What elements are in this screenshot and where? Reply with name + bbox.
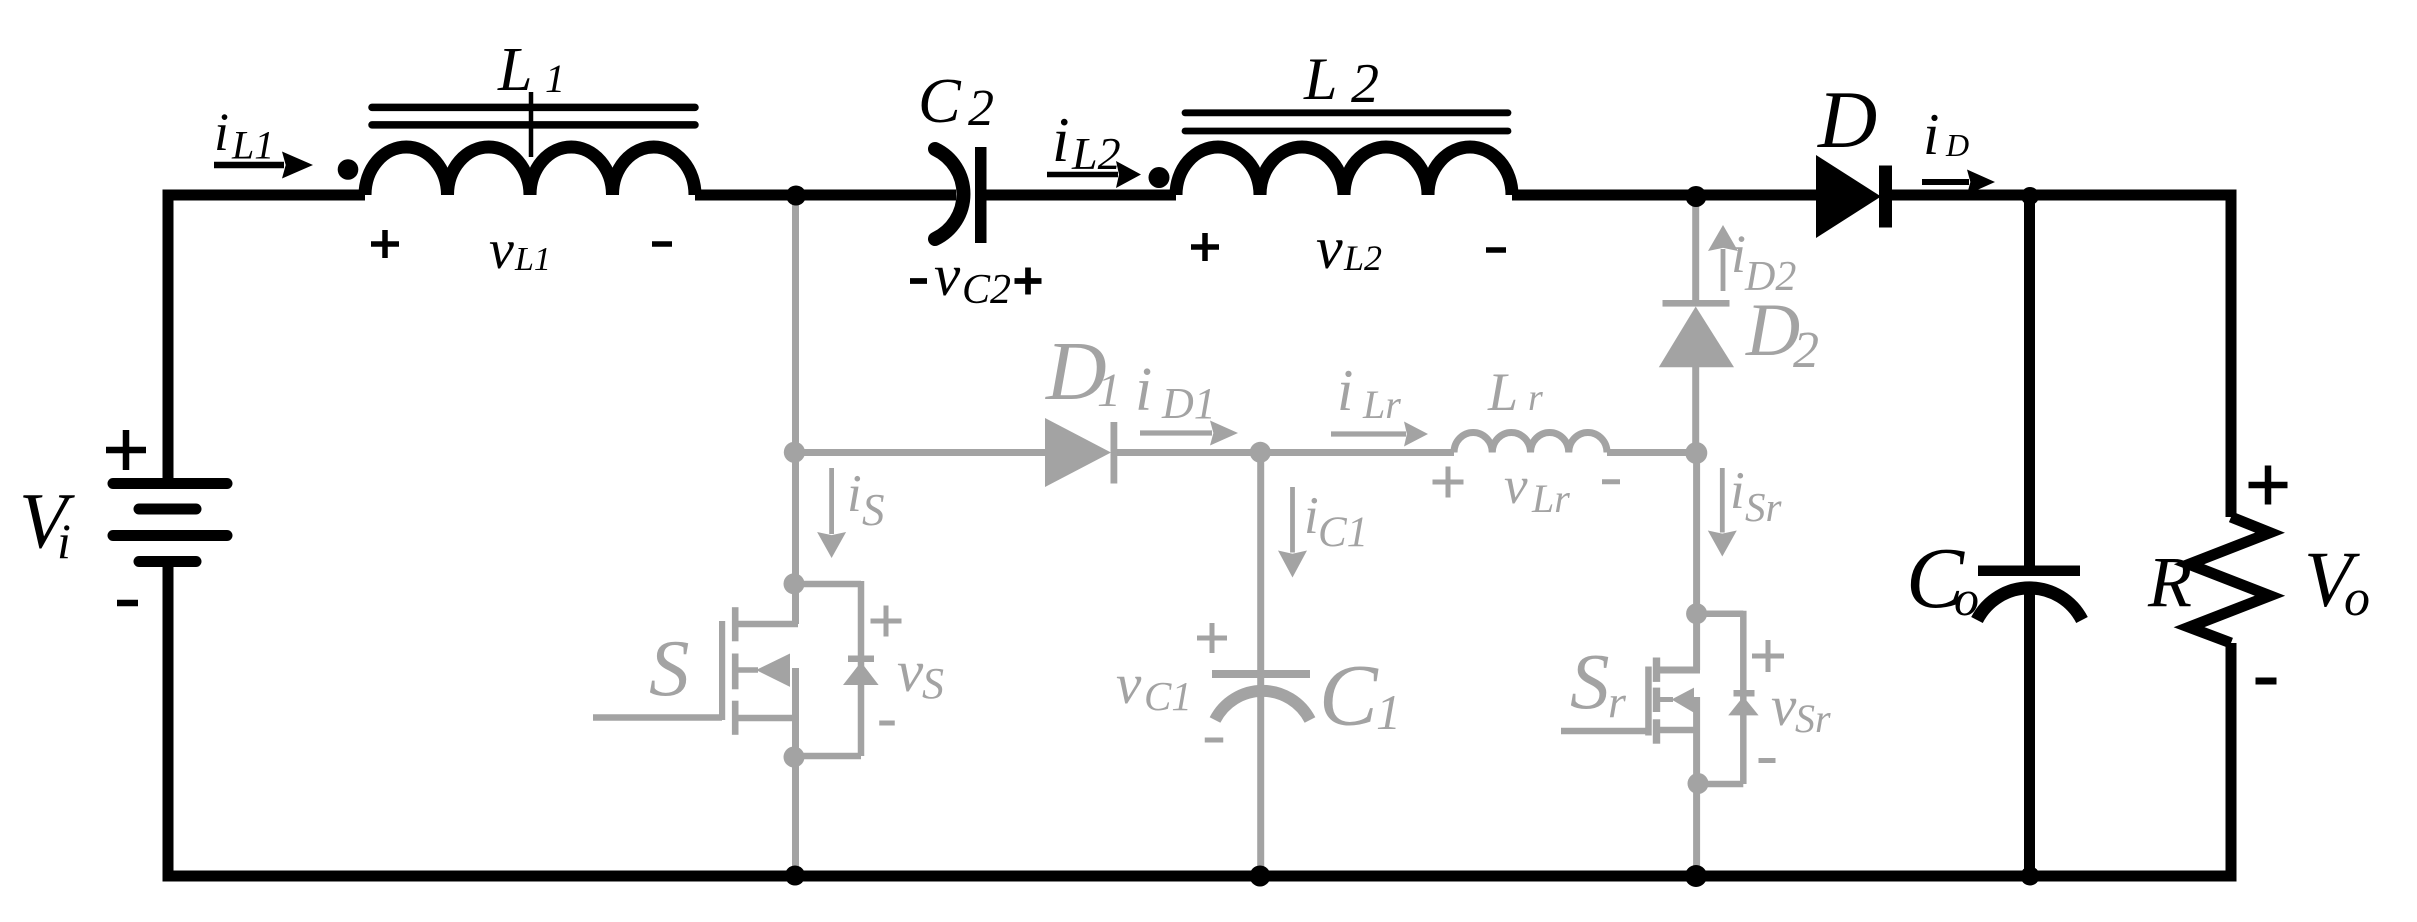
source Vi plate long bottom	[113, 530, 227, 541]
svg-text:S: S	[922, 659, 944, 708]
svg-text:v: v	[934, 242, 961, 308]
transistor S channel bar drain	[732, 607, 739, 641]
label vC1 minus	[1205, 738, 1224, 743]
label iD1	[1135, 356, 1216, 428]
diode D	[1816, 155, 1892, 238]
wire C1 branch vertical (mid rail node down through C1 to bottom rail)	[1257, 453, 1264, 876]
diode D2	[1659, 300, 1734, 367]
inductor L2 core line lower	[1185, 128, 1508, 135]
transistor S body arrow	[738, 654, 790, 687]
svg-text:Sr: Sr	[1795, 696, 1831, 741]
svg-text:i: i	[847, 465, 862, 523]
svg-text:v: v	[1116, 653, 1142, 716]
inductor L1 coil	[365, 147, 695, 195]
node mid rail at D2/Sr	[1685, 442, 1707, 464]
svg-text:o: o	[2344, 570, 2370, 627]
svg-text:Lr: Lr	[1531, 476, 1570, 521]
wire output branch upper (top rail down to R)	[2226, 190, 2237, 518]
transistor Sr gate bar	[1645, 667, 1652, 736]
node Sr source junction	[1688, 773, 1709, 794]
node mid rail at S branch	[784, 442, 805, 463]
node S source junction	[784, 747, 805, 768]
label vL2 plus	[1191, 233, 1219, 261]
label Vo minus	[2256, 678, 2277, 685]
wire Co branch lower	[2024, 588, 2035, 876]
label iD2	[1731, 224, 1796, 300]
wire mid rail from S-branch to diode D1	[796, 449, 1047, 456]
label D	[1817, 74, 1877, 165]
label L1	[497, 36, 565, 104]
label Sr	[1570, 639, 1627, 727]
svg-text:v: v	[1771, 675, 1797, 738]
current arrow iD1	[1140, 421, 1238, 446]
transistor Sr body arrow	[1656, 688, 1694, 713]
capacitor C1	[1212, 670, 1310, 720]
label Vo plus	[2249, 466, 2288, 505]
svg-text:i: i	[1304, 487, 1319, 545]
svg-text:v: v	[1316, 215, 1343, 281]
diode S body diode	[843, 656, 879, 686]
svg-text:i: i	[214, 102, 229, 162]
capacitor C2	[935, 147, 987, 243]
wire mid rail from D1 cathode to node C1	[1116, 449, 1260, 456]
diode Sr body diode	[1728, 690, 1758, 715]
wire top rail from L1 to C2	[695, 190, 956, 201]
label S	[649, 623, 690, 713]
svg-text:Lr: Lr	[1362, 382, 1401, 427]
svg-text:o: o	[1954, 570, 1979, 626]
label vC2 minus	[910, 278, 927, 284]
svg-text:D: D	[1945, 127, 1969, 163]
node mid rail at C1	[1250, 442, 1271, 463]
svg-text:D2: D2	[1744, 254, 1796, 300]
transistor Sr source lead	[1656, 727, 1700, 734]
wire Sr body-diode branch	[1697, 611, 1744, 784]
label R	[2147, 542, 2192, 622]
wire top rail from L2 to diode D	[1512, 190, 1818, 201]
label D1	[1045, 325, 1121, 418]
current arrow iD	[1922, 170, 1995, 195]
label vL1 plus	[371, 230, 399, 258]
svg-text:i: i	[57, 513, 71, 569]
node S drain junction	[784, 573, 805, 594]
svg-text:D1: D1	[1161, 379, 1216, 428]
inductor L2 coil	[1176, 147, 1512, 195]
svg-text:i: i	[1052, 105, 1070, 175]
svg-text:r: r	[1608, 676, 1627, 727]
label iL1	[214, 102, 274, 168]
svg-text:S: S	[1570, 639, 1610, 726]
svg-text:L2: L2	[1343, 238, 1382, 278]
current arrow iL1	[214, 152, 313, 179]
label iLr	[1337, 357, 1401, 427]
svg-text:L1: L1	[231, 123, 274, 168]
wire source Vi bottom lead	[163, 561, 174, 882]
label Co	[1906, 529, 1979, 626]
current arrow iD2	[1708, 225, 1738, 291]
svg-text:1: 1	[545, 56, 565, 101]
diode D1	[1045, 418, 1117, 487]
svg-text:v: v	[1504, 457, 1528, 515]
svg-text:S: S	[862, 485, 885, 535]
node top rail / Co branch	[2021, 187, 2039, 205]
node bottom rail / Sr branch	[1685, 865, 1707, 887]
transistor Sr gate lead	[1561, 728, 1648, 735]
svg-text:2: 2	[1793, 322, 1819, 379]
source Vi plate short lower	[139, 556, 196, 567]
node L2 phase dot	[1149, 167, 1170, 188]
label D2	[1745, 289, 1819, 379]
label Lr	[1487, 362, 1543, 422]
svg-text:L: L	[1487, 362, 1518, 422]
transistor S gate lead	[593, 714, 722, 721]
node top rail / D2 branch	[1686, 186, 1707, 207]
source Vi plate long top	[113, 478, 227, 489]
label Vi	[19, 479, 75, 570]
wire top rail from source corner to L1	[163, 190, 366, 201]
wire Sr-branch vertical lower (Sr source to bottom rail)	[1693, 697, 1700, 876]
wire Co branch upper	[2024, 195, 2035, 566]
wire bottom rail	[163, 871, 2237, 882]
label vC1 plus	[1197, 623, 1227, 653]
label vL2 minus	[1486, 247, 1506, 253]
svg-text:r: r	[1528, 377, 1543, 419]
inductor Lr coil	[1454, 432, 1607, 452]
svg-text:D: D	[1817, 74, 1877, 165]
label iL2	[1052, 105, 1121, 179]
svg-text:C: C	[918, 65, 962, 136]
wire S-branch vertical lower (arrow base to bottom rail)	[792, 668, 799, 876]
svg-text:v: v	[489, 219, 514, 281]
wire S body-diode branch	[794, 581, 861, 756]
wire mid rail from node C1 to Lr	[1260, 449, 1454, 456]
current arrow iL2	[1047, 161, 1141, 188]
inductor L1 core line upper	[372, 104, 695, 112]
wire output branch lower (R down to bottom rail)	[2226, 643, 2237, 882]
label vSr minus	[1759, 758, 1776, 763]
svg-text:R: R	[2147, 542, 2192, 622]
label vL1 minus	[652, 241, 672, 247]
wire top rail from diode D to output corner	[1890, 190, 2237, 201]
wire mid rail from Lr to node D2/Sr	[1607, 449, 1697, 456]
svg-text:L2: L2	[1071, 128, 1121, 179]
transistor S drain lead	[735, 621, 798, 628]
label Vi plus	[106, 430, 146, 470]
svg-text:i: i	[1135, 356, 1152, 424]
svg-text:D: D	[1745, 289, 1800, 372]
label vSr plus	[1752, 640, 1784, 672]
svg-text:1: 1	[1376, 684, 1401, 740]
transistor Sr channel bar body	[1653, 688, 1660, 712]
current arrow iSr	[1708, 468, 1737, 557]
label L2	[1303, 46, 1379, 115]
svg-text:Sr: Sr	[1745, 484, 1783, 530]
node bottom rail / Co branch	[2021, 867, 2040, 886]
svg-text:S: S	[649, 623, 690, 713]
current arrow iLr	[1331, 422, 1428, 447]
wire D2 branch vertical (D2 anode down to mid rail)	[1692, 366, 1699, 453]
label Vi minus	[117, 600, 138, 607]
source Vi plate short upper	[139, 504, 196, 515]
wire source Vi top lead	[163, 190, 174, 485]
svg-text:i: i	[1730, 462, 1745, 520]
svg-text:L: L	[1303, 46, 1337, 112]
transistor Sr channel bar drain	[1653, 658, 1660, 682]
svg-text:L: L	[497, 36, 532, 104]
svg-text:C: C	[1319, 648, 1379, 745]
wire D2 branch vertical (top wire node down to D2 cathode)	[1692, 195, 1699, 302]
node Sr drain junction	[1686, 603, 1707, 624]
svg-text:1: 1	[1097, 364, 1121, 417]
svg-text:L1: L1	[514, 241, 551, 278]
node top rail / S branch	[786, 186, 806, 206]
label C1	[1319, 648, 1401, 745]
transistor Sr channel bar source	[1653, 719, 1660, 743]
label vSr	[1771, 675, 1831, 741]
resistor R	[2189, 517, 2270, 643]
svg-text:i: i	[1731, 224, 1746, 284]
label iSr	[1730, 462, 1783, 530]
inductor L2 core line upper	[1185, 109, 1508, 116]
node L1 phase dot	[338, 159, 359, 180]
wire top rail from C2 to L2	[986, 190, 1176, 201]
label vC2	[934, 242, 1011, 313]
wire S-branch vertical upper (node after L1 down to mid rail)	[792, 195, 799, 624]
wire Sr-branch vertical (mid rail down to Sr drain)	[1693, 453, 1700, 670]
inductor L1 label tick	[529, 92, 534, 157]
svg-text:2: 2	[968, 80, 994, 137]
label vC1	[1116, 653, 1192, 719]
current arrow iC1	[1278, 487, 1307, 578]
label iC1	[1304, 487, 1368, 556]
transistor Sr drain lead	[1656, 667, 1700, 674]
svg-text:C1: C1	[1144, 673, 1192, 719]
svg-text:v: v	[897, 638, 924, 704]
current arrow iS	[817, 468, 846, 558]
label Vo	[2304, 537, 2370, 627]
transistor S gate bar	[719, 621, 725, 720]
transistor S channel bar body	[732, 654, 739, 690]
label vC2 plus	[1015, 268, 1042, 295]
label +vLr- minus	[1602, 479, 1620, 484]
label vS plus	[871, 606, 902, 637]
svg-text:C2: C2	[962, 267, 1011, 313]
label vS minus	[879, 721, 895, 726]
svg-text:2: 2	[1351, 53, 1379, 115]
transistor S source lead	[735, 715, 798, 722]
label vLr	[1504, 457, 1570, 521]
capacitor Co	[1977, 566, 2082, 621]
transistor S channel bar source	[732, 701, 739, 735]
node bottom rail / C1 branch	[1250, 866, 1271, 887]
label +vLr- plus	[1433, 467, 1464, 498]
label iS	[847, 465, 885, 535]
label C2	[918, 65, 994, 137]
svg-text:i: i	[1923, 101, 1939, 167]
label vL1	[489, 219, 551, 281]
inductor L1 core line lower	[372, 121, 695, 129]
node bottom rail / S branch	[785, 866, 805, 886]
svg-text:C1: C1	[1318, 509, 1368, 556]
svg-text:i: i	[1337, 357, 1353, 423]
label vS	[897, 638, 944, 708]
label iD	[1923, 101, 1969, 167]
label vL2	[1316, 215, 1382, 281]
